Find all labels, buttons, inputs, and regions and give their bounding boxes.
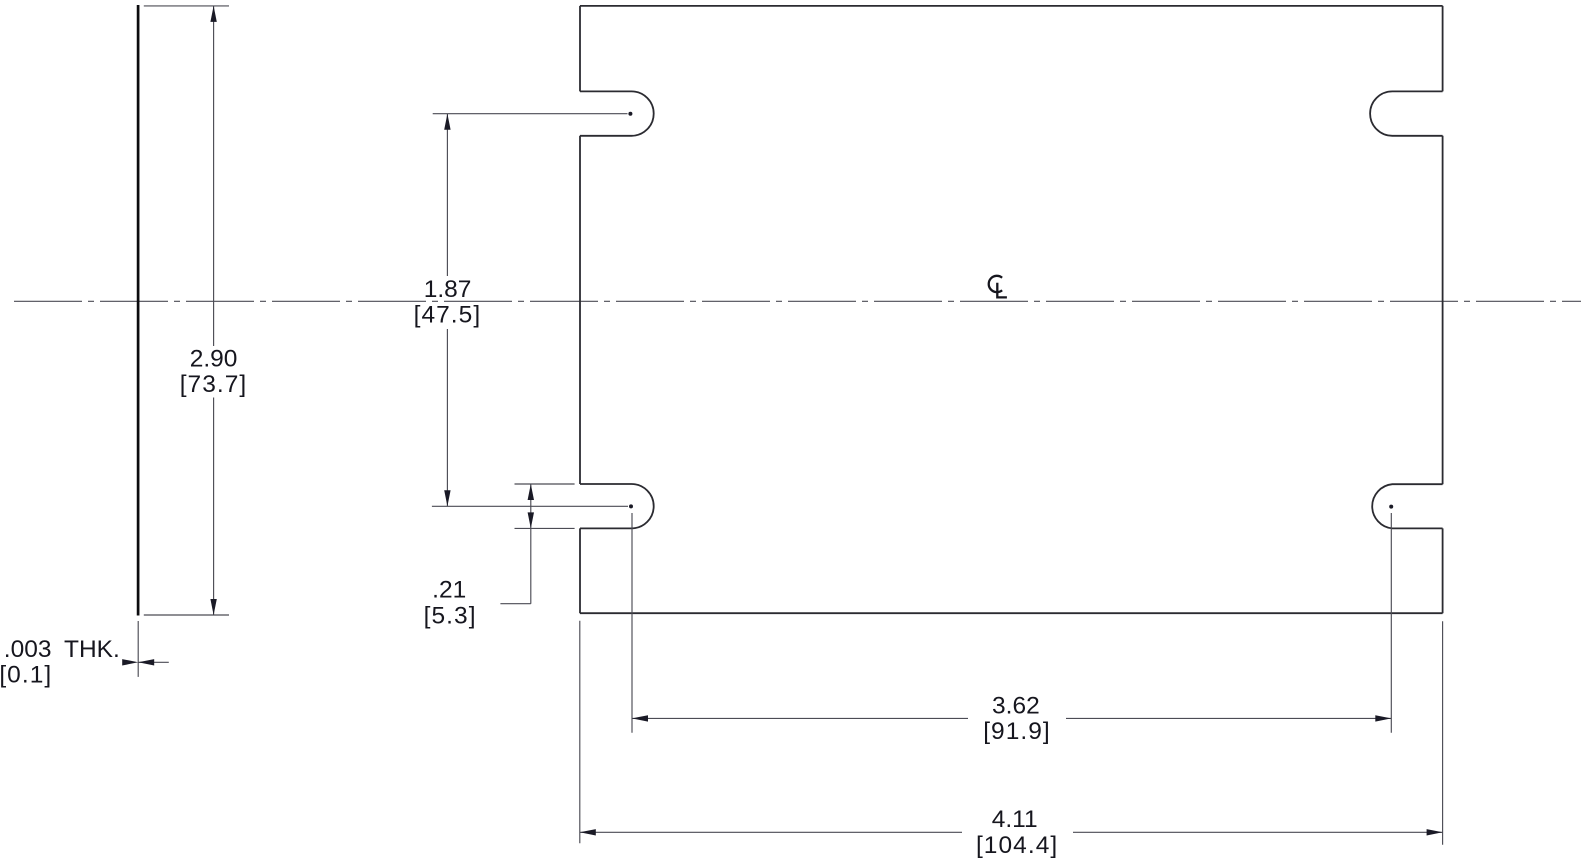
dot lower-left slot center (629, 504, 633, 508)
dot upper-left slot center (628, 112, 632, 116)
dimension line 2.90 vertical (213, 6, 215, 615)
arrow up 1.87 (444, 114, 450, 130)
extension line part left edge (4.11) (579, 621, 581, 844)
dimension line 4.11 horizontal (580, 831, 1443, 833)
svg-text:[73.7]: [73.7] (180, 371, 248, 398)
svg-text:2.90: 2.90 (190, 346, 238, 373)
left edge segments (579, 6, 581, 613)
dimension line 1.87 vertical (446, 114, 448, 507)
extension line top of side view (144, 5, 229, 7)
arrow left 4.11 (580, 829, 596, 835)
notch slot top-right (1370, 91, 1442, 135)
hole center dots (628, 112, 1393, 509)
dimension text 3.62 [91.9] (983, 693, 1051, 745)
arrow left thickness (138, 659, 154, 665)
dimension text 1.87 [47.5] (414, 276, 482, 329)
extension line right hole center (3.62) (1390, 513, 1392, 733)
centerline symbol C over L (989, 276, 1007, 298)
svg-text:[0.1]: [0.1] (0, 662, 52, 689)
arrow down 2.90 (210, 599, 216, 615)
notch slot top-left (580, 91, 654, 135)
dimension shaft .21 with leader (500, 484, 530, 604)
arrow left 3.62 (632, 715, 648, 721)
svg-text:4.11: 4.11 (992, 806, 1038, 833)
extension line part right edge (4.11) (1442, 621, 1444, 844)
dot lower-right slot center (1389, 505, 1393, 509)
arrow right thickness (122, 659, 138, 665)
dimension text .003 THK. [0.1] (0, 636, 120, 689)
extension line upper slot centerline (433, 113, 628, 115)
extension line lower slot centerline (432, 505, 628, 507)
extension line slot top (.21) (515, 483, 575, 485)
notch slot bottom-left (580, 484, 654, 528)
arrow down .21 (528, 512, 534, 528)
dimension text .21 [5.3] (424, 577, 477, 630)
svg-text:[47.5]: [47.5] (414, 302, 482, 329)
svg-text:.003: .003 (4, 636, 52, 663)
arrow down 1.87 (444, 490, 450, 506)
svg-text:3.62: 3.62 (992, 693, 1040, 720)
dimension text 2.90 [73.7] (180, 346, 248, 399)
bottom edge (580, 612, 1443, 614)
right edge segments (1442, 6, 1444, 613)
notch slot bottom-right (1372, 484, 1442, 528)
extension line thickness (137, 621, 139, 677)
side view edge (.003 thick plate) (137, 5, 140, 616)
arrow right 4.11 (1427, 829, 1443, 835)
svg-text:THK.: THK. (64, 636, 120, 663)
extension line slot bottom (.21) (515, 527, 575, 529)
centerline CL (horizontal dash-dot) (14, 300, 1581, 302)
svg-text:[91.9]: [91.9] (983, 718, 1051, 745)
part outline (front view of plate with four slotted notches) (580, 6, 1443, 613)
top edge (580, 5, 1443, 7)
leader tail thickness (138, 661, 169, 663)
extension line left hole center (3.62) (631, 513, 633, 733)
dimension line 3.62 horizontal (632, 717, 1391, 719)
svg-text:.21: .21 (432, 577, 466, 604)
arrow up 2.90 (210, 6, 216, 22)
extension line bottom of side view (144, 614, 229, 616)
arrow right 3.62 (1375, 715, 1391, 721)
svg-text:1.87: 1.87 (424, 276, 472, 303)
svg-text:[5.3]: [5.3] (424, 602, 477, 629)
arrow up .21 (528, 484, 534, 500)
dimension text 4.11 [104.4] (976, 806, 1058, 859)
svg-text:[104.4]: [104.4] (976, 832, 1058, 859)
